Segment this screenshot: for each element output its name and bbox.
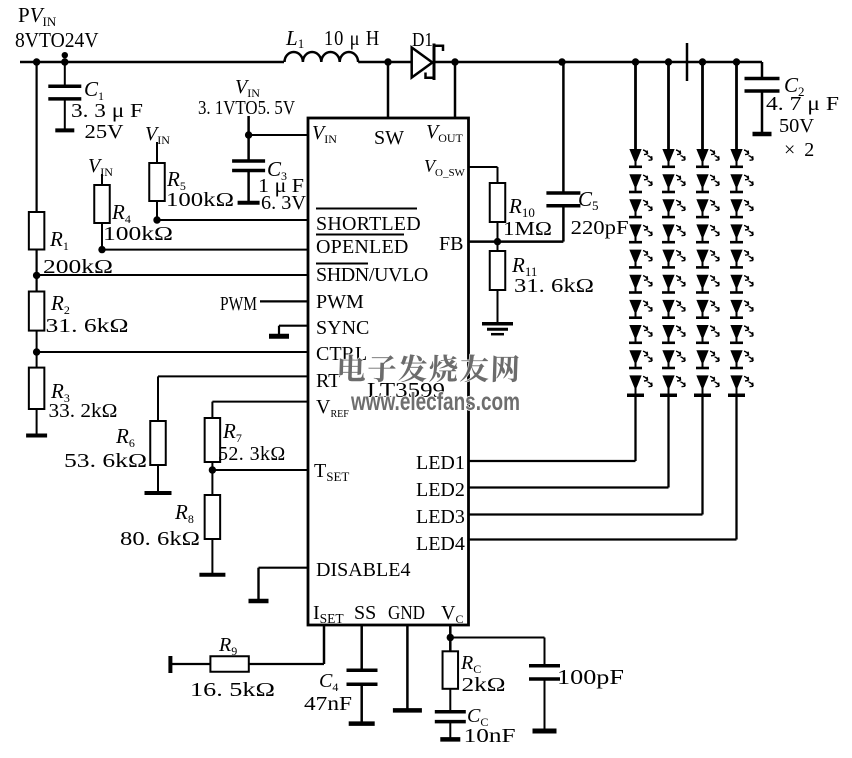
svg-text:33. 2kΩ: 33. 2kΩ [49,400,118,422]
svg-text:6. 3V: 6. 3V [261,192,307,214]
svg-text:31. 6kΩ: 31. 6kΩ [514,275,594,297]
svg-text:DISABLE4: DISABLE4 [316,559,410,581]
svg-text:www.elecfans.com: www.elecfans.com [350,388,520,416]
svg-text:D1: D1 [412,29,433,51]
svg-text:52. 3kΩ: 52. 3kΩ [218,443,286,465]
svg-text:LED2: LED2 [416,479,465,501]
svg-text:4. 7 μ F: 4. 7 μ F [766,93,839,115]
svg-text:LED1: LED1 [416,452,465,474]
svg-text:8VTO24V: 8VTO24V [15,28,99,52]
svg-text:25V: 25V [85,121,125,143]
svg-text:220pF: 220pF [571,217,629,239]
svg-text:× 2: × 2 [784,139,816,161]
svg-text:100kΩ: 100kΩ [103,223,173,245]
svg-text:100kΩ: 100kΩ [166,189,234,211]
svg-text:47nF: 47nF [304,693,352,715]
svg-text:LED4: LED4 [416,533,465,555]
svg-text:3. 1VTO5. 5V: 3. 1VTO5. 5V [198,98,295,119]
svg-text:10nF: 10nF [464,725,516,747]
svg-text:10 μ H: 10 μ H [324,26,380,50]
svg-text:SW: SW [374,127,404,149]
svg-text:SHDN/UVLO: SHDN/UVLO [316,264,428,286]
svg-text:FB: FB [439,233,463,255]
svg-text:1MΩ: 1MΩ [503,218,552,240]
svg-text:SHORTLED: SHORTLED [316,213,421,235]
svg-text:SYNC: SYNC [316,317,369,339]
svg-text:16. 5kΩ: 16. 5kΩ [190,679,275,701]
svg-text:80. 6kΩ: 80. 6kΩ [120,528,200,550]
svg-text:GND: GND [388,602,425,624]
svg-text:PWM: PWM [316,291,364,313]
svg-text:LED3: LED3 [416,506,465,528]
svg-text:RT: RT [316,370,340,392]
svg-text:50V: 50V [779,115,815,137]
svg-text:31. 6kΩ: 31. 6kΩ [46,315,129,337]
svg-text:53. 6kΩ: 53. 6kΩ [64,450,147,472]
svg-text:3. 3 μ F: 3. 3 μ F [71,100,143,122]
svg-text:OPENLED: OPENLED [316,236,409,258]
svg-text:100pF: 100pF [557,665,624,689]
svg-text:SS: SS [354,602,376,624]
svg-text:2kΩ: 2kΩ [462,674,506,696]
svg-text:PWM: PWM [220,293,257,315]
